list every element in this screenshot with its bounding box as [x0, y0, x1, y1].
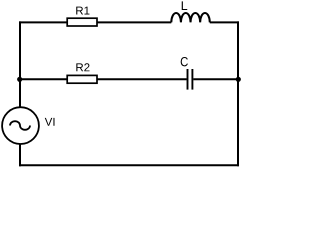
- inductor L: [171, 1, 209, 22]
- wire left vertical upper: [19, 21, 21, 107]
- resistor R1: [67, 7, 97, 26]
- wire left node to R2: [20, 78, 68, 80]
- node junction left: [17, 77, 22, 82]
- wire C to right node: [193, 78, 238, 80]
- wire bottom: [19, 164, 239, 166]
- ac source VI: [2, 107, 54, 144]
- wire L to top-right corner: [210, 21, 239, 23]
- wire R2 to C: [97, 78, 187, 80]
- wire top left (node between source and R1): [19, 21, 68, 23]
- capacitor C: [181, 57, 193, 90]
- resistor R2: [67, 63, 97, 83]
- wire R1 to L: [97, 21, 171, 23]
- wire right vertical: [237, 21, 239, 166]
- wire source to bottom: [19, 144, 21, 167]
- node junction right: [236, 77, 241, 82]
